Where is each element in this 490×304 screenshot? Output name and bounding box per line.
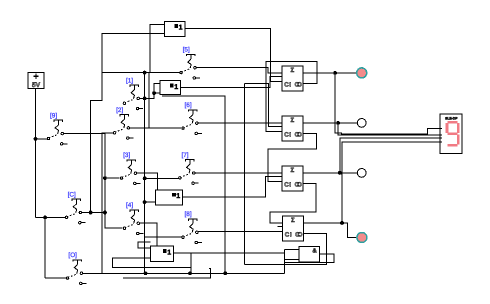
svg-text:[C]: [C] — [68, 191, 76, 198]
node bit1 junction — [340, 221, 344, 225]
wire battery down — [35, 89, 37, 218]
wire branch down to switch6 row — [148, 73, 150, 128]
svg-text:5V: 5V — [32, 82, 41, 89]
wire bottom jog — [123, 269, 211, 278]
wire switch9 out to switch3/4 poles — [63, 134, 123, 229]
wire switch7 out to FA3 A — [195, 172, 282, 174]
AND gate U5 (&) — [299, 246, 320, 262]
OR gate U1 (&#8805;1) — [164, 21, 185, 36]
wire bus-B to switch7 pole — [145, 177, 179, 179]
node switch7 pole branch — [143, 176, 147, 180]
wire bus-B vertical — [144, 73, 146, 274]
wire switch0 output row — [82, 212, 105, 214]
wire FA4 B stub — [278, 226, 283, 228]
node bit4 junction — [336, 121, 340, 125]
switch key2 — [113, 107, 133, 140]
svg-text:[O]: [O] — [68, 252, 77, 259]
wire AND input vertical — [284, 249, 286, 273]
svg-text:CO: CO — [295, 181, 303, 188]
OR gate U2 (&#8805;1) — [160, 81, 181, 95]
node common column junction — [103, 211, 107, 215]
full adder FA1 — [282, 66, 303, 91]
wire to OR2 input B — [154, 92, 160, 94]
wire FA3 sum to lamp X3 — [303, 172, 357, 174]
node OR3 inB branch — [143, 200, 147, 204]
svg-text:1: 1 — [176, 193, 180, 200]
wire bus-B to OR3 input B — [145, 201, 156, 203]
wire switch5 out to FA1 A — [196, 68, 282, 73]
wire FA3 CO to FA4 A — [270, 184, 316, 223]
svg-text:CI: CI — [284, 181, 291, 188]
wire bus-B to switch8 pole — [145, 236, 182, 238]
wire OR1 out to FA1 CI — [185, 28, 282, 81]
switch key7 — [179, 152, 199, 185]
node loop/bottom bus junction — [188, 271, 192, 275]
full adder FA4 — [283, 216, 304, 241]
switch key4 — [123, 202, 143, 235]
node bit2 junction — [338, 171, 342, 175]
battery V1 5V — [28, 73, 44, 90]
wire FA1 CO to FA2 CI — [266, 62, 317, 132]
switch key3 — [120, 152, 140, 184]
node bus-B switch1 junction — [143, 97, 147, 101]
svg-text:[4]: [4] — [126, 202, 133, 209]
wire AND input A — [285, 248, 300, 250]
svg-text:CO: CO — [295, 81, 303, 88]
wire switch1 out to OR2 input A — [140, 83, 161, 98]
svg-text:CI: CI — [284, 81, 291, 88]
seven segment display U6 — [440, 114, 462, 154]
node bus-225 bottom junction — [223, 271, 227, 275]
wire to switchC pole — [45, 277, 66, 279]
node bit8 junction — [333, 71, 337, 75]
wire OR3 out to FA3 B — [183, 177, 282, 197]
wire OR2 out to FA1 B — [181, 77, 283, 88]
wire AND input B — [285, 258, 300, 260]
svg-text:1: 1 — [167, 249, 171, 256]
full adder FA3 — [282, 166, 303, 191]
lamp X1 (bit8, on) — [357, 68, 367, 78]
wire switch0 net to OR1 input B — [91, 33, 165, 212]
node switch9 branch — [34, 137, 38, 141]
svg-text:1: 1 — [179, 25, 183, 32]
switch key9 — [47, 113, 67, 146]
wire bit2 to display pin3 — [340, 138, 440, 173]
wire bus-244 vertical — [244, 83, 246, 264]
wire FA1 sum to lamp X1 — [303, 72, 357, 74]
wire switch2 pole common — [102, 133, 113, 273]
svg-text:[1]: [1] — [126, 77, 133, 84]
wire to OR1 input A — [150, 25, 164, 73]
svg-text:Σ: Σ — [291, 117, 295, 124]
svg-text:CO: CO — [295, 131, 303, 138]
svg-text:Σ: Σ — [291, 67, 295, 74]
wire to corner — [36, 216, 46, 218]
node bus-B top junction — [143, 71, 147, 75]
wire AND output loop — [285, 254, 335, 262]
wire bus-244 to FA2 B — [245, 83, 282, 126]
full adder FA2 — [282, 116, 303, 141]
wire stub rectangle at OR4 input — [138, 242, 150, 248]
svg-text:[3]: [3] — [123, 152, 130, 159]
wire row to switch5 pole — [102, 72, 180, 74]
wire to switch9 pole — [36, 138, 48, 140]
svg-text:&: & — [312, 247, 317, 254]
switch key1 — [123, 77, 143, 110]
svg-text:[9]: [9] — [50, 113, 57, 120]
OR gate U3 (&#8805;1) — [155, 190, 182, 205]
wire switch2 out to switch6 pole — [130, 127, 181, 129]
node OR2 inB junction — [152, 91, 156, 95]
svg-text:Σ: Σ — [291, 217, 295, 224]
wire bottom common bus — [82, 272, 284, 274]
wire FA2 CO to FA3 CI — [268, 134, 317, 182]
svg-text:CI: CI — [285, 231, 292, 238]
node bus-B bottom junction — [144, 271, 148, 275]
wire FA2 sum to lamp X2 — [303, 122, 357, 124]
wire OR2 area to bus-225 — [162, 96, 225, 273]
node switch0/C branch — [43, 216, 47, 220]
svg-text:CO: CO — [295, 231, 303, 238]
wire bit1 to display pin4 — [342, 142, 440, 223]
switch keyO — [66, 252, 86, 284]
svg-text:[8]: [8] — [185, 211, 192, 218]
svg-text:SLE-DP: SLE-DP — [445, 116, 458, 120]
lamp X3 (bit2, off) — [357, 169, 366, 178]
wire to switch3 pole — [105, 177, 120, 179]
switch key5 — [180, 47, 200, 80]
node switch3 pole branch — [103, 176, 107, 180]
wire OR4 out to AND gate — [174, 252, 285, 254]
wire bit8 to display pin1 — [335, 73, 440, 134]
lamp X2 (bit4, off) — [357, 119, 366, 128]
switch key8 — [182, 211, 202, 244]
svg-text:[5]: [5] — [183, 47, 190, 54]
wire switch4 out to OR4 input A (enters box top) — [140, 223, 157, 246]
svg-text:[7]: [7] — [181, 152, 188, 159]
wire bit4 to display pin2 — [338, 123, 440, 135]
svg-text:[2]: [2] — [116, 107, 123, 114]
svg-text:CI: CI — [284, 131, 291, 138]
wire OR4 loop vertical — [190, 253, 192, 273]
svg-text:[6]: [6] — [185, 102, 192, 109]
wire to switch0 pole — [45, 216, 65, 218]
node bus-90 junction — [89, 211, 93, 215]
OR gate U4 (&#8805;1) — [151, 246, 174, 261]
wire switch3 out to OR3 input A — [137, 173, 158, 190]
svg-text:1: 1 — [174, 84, 178, 91]
lamp X4 (bit1, on) — [357, 233, 367, 243]
display input pins — [440, 128, 442, 142]
wire down to switchC — [44, 217, 46, 278]
wire OR4 input B feedback loop — [112, 258, 191, 267]
wire FA4 sum out — [303, 222, 342, 224]
wire to lamp X4 — [342, 223, 357, 238]
wire FA4 CO return to bus-244 — [245, 234, 327, 265]
switch key6 — [182, 102, 202, 134]
wire switch6 out to FA2 A — [198, 122, 282, 124]
switch keyC — [65, 191, 85, 224]
wire switch8 out to FA4 CI — [198, 231, 282, 233]
svg-text:Σ: Σ — [291, 167, 295, 174]
